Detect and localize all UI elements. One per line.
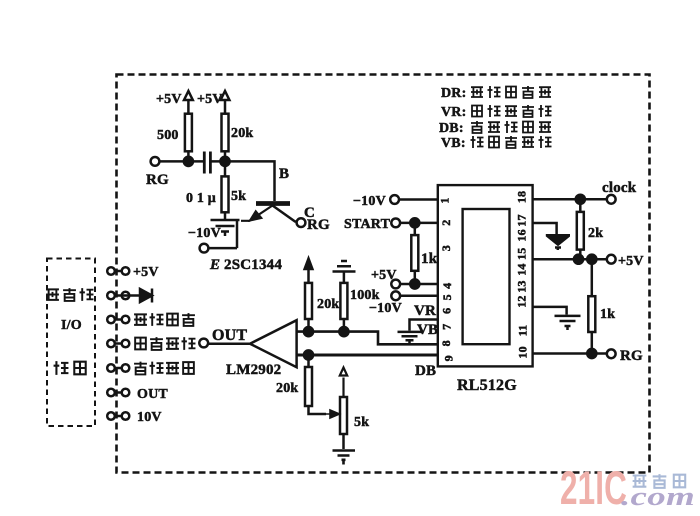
node RG right terminal xyxy=(607,349,616,358)
wire xyxy=(224,161,227,219)
wire xyxy=(115,294,140,297)
svg-text:5: 5 xyxy=(440,294,454,300)
svg-text:21IC: 21IC xyxy=(560,461,627,514)
computer I/O interface dashed box xyxy=(47,259,95,427)
svg-text:10V: 10V xyxy=(137,410,162,425)
power arrow above 20k R4 xyxy=(305,259,313,283)
wire xyxy=(343,319,346,332)
svg-text:2SC1344: 2SC1344 xyxy=(224,257,282,273)
node junction xyxy=(587,349,596,358)
wire op-amp input top xyxy=(297,332,438,345)
svg-text:2k: 2k xyxy=(588,226,603,241)
IC pin numbers left xyxy=(438,197,456,361)
wire pin15 to +5V xyxy=(533,258,607,261)
wire xyxy=(115,391,122,394)
svg-text:OUT: OUT xyxy=(137,387,168,402)
wire xyxy=(591,332,594,354)
wire xyxy=(210,161,274,201)
wire xyxy=(579,199,582,259)
svg-text:OUT: OUT xyxy=(212,327,247,344)
svg-text:10: 10 xyxy=(516,346,530,358)
label computer (ji suan ji) xyxy=(46,288,93,301)
svg-text:.com: .com xyxy=(621,482,695,511)
node junction xyxy=(304,327,313,336)
wire xyxy=(399,198,438,201)
wire xyxy=(224,151,227,161)
wire VB ground to pin7 xyxy=(410,320,438,331)
resistor 500 xyxy=(185,114,192,152)
svg-text:1k: 1k xyxy=(421,251,438,267)
transistor Q1 2SC1344 xyxy=(256,201,290,206)
svg-text:7: 7 xyxy=(440,324,454,330)
svg-text:−10V: −10V xyxy=(188,226,221,241)
svg-text:E: E xyxy=(209,257,220,273)
potentiometer 5k xyxy=(340,397,347,434)
node junction xyxy=(574,255,583,264)
watermark dianziwang xyxy=(633,474,686,488)
svg-text:DB: DB xyxy=(415,363,436,379)
node -10V terminal xyxy=(200,244,209,253)
resistor 1k left xyxy=(411,235,418,271)
svg-text:1k: 1k xyxy=(600,307,615,322)
wire xyxy=(208,342,250,345)
wiper arrow into pot xyxy=(326,410,340,418)
svg-text:−10V: −10V xyxy=(353,194,386,209)
IC pin numbers right xyxy=(515,191,530,359)
ground under 5k xyxy=(211,220,240,236)
wire xyxy=(115,415,122,418)
svg-text:+5V: +5V xyxy=(133,265,159,280)
IC inner rectangle xyxy=(463,209,510,344)
label clock signal row xyxy=(134,313,195,326)
wire xyxy=(400,222,438,225)
svg-text:14: 14 xyxy=(515,263,529,275)
svg-text:16: 16 xyxy=(515,229,529,241)
node +5V terminal xyxy=(391,280,400,289)
resistor 1k right xyxy=(588,296,595,332)
svg-text:18: 18 xyxy=(515,191,529,203)
node OUT terminal xyxy=(199,339,208,348)
wire pin12 to ground xyxy=(533,307,567,315)
svg-text:+5V: +5V xyxy=(156,92,182,107)
node junction xyxy=(587,255,596,264)
inverted ground above 100k xyxy=(333,261,356,283)
label recharge terminal row xyxy=(134,362,194,375)
capacitor 0.1u xyxy=(204,152,210,174)
wire xyxy=(414,271,417,284)
wire xyxy=(342,434,345,449)
svg-text:RG: RG xyxy=(307,217,330,233)
svg-text:11: 11 xyxy=(516,325,530,337)
diode D1 xyxy=(140,289,152,303)
svg-text:6: 6 xyxy=(440,308,454,314)
node junction xyxy=(410,279,419,288)
resistor 100k xyxy=(340,283,347,319)
wire op-amp input bottom xyxy=(297,354,438,357)
svg-text:+5V: +5V xyxy=(371,268,397,283)
node junction xyxy=(184,157,193,166)
svg-text:VR: VR xyxy=(414,303,436,319)
power +5V arrow 2 xyxy=(221,91,230,114)
svg-text:RG: RG xyxy=(146,172,169,188)
wire xyxy=(307,319,310,332)
node START terminal xyxy=(391,219,400,228)
wire pin18 to clock xyxy=(533,198,607,201)
signal ground triangle xyxy=(546,235,570,244)
svg-text:4: 4 xyxy=(440,283,454,289)
wire xyxy=(400,295,438,298)
node pair diode row xyxy=(107,292,115,300)
op-amp U1 LM2902 xyxy=(250,320,297,367)
wire xyxy=(187,151,190,161)
wire xyxy=(414,223,417,235)
svg-text:20k: 20k xyxy=(231,126,253,141)
svg-text:1: 1 xyxy=(438,197,452,203)
figure dashed border xyxy=(117,75,650,473)
wire pin17 to signal ground xyxy=(533,223,557,234)
node junction xyxy=(339,327,348,336)
wire xyxy=(115,342,122,345)
IC U2 RL512G outline xyxy=(438,185,533,366)
svg-text:13: 13 xyxy=(515,280,529,292)
svg-text:17: 17 xyxy=(515,214,529,226)
potentiometer 5k arrow xyxy=(340,368,347,398)
svg-text:9: 9 xyxy=(442,355,456,361)
node pair OUT xyxy=(107,389,115,397)
ground VB xyxy=(398,332,422,345)
wire xyxy=(115,270,122,273)
svg-text:8: 8 xyxy=(439,340,453,346)
svg-text:+5V: +5V xyxy=(197,92,223,107)
node junction xyxy=(576,195,585,204)
svg-text:12: 12 xyxy=(515,295,529,307)
resistor 20k top xyxy=(222,114,229,152)
node pair 10V xyxy=(107,412,115,420)
power +5V arrow 1 xyxy=(184,91,193,114)
label start signal row xyxy=(135,337,195,350)
label interface (jie kou) xyxy=(54,361,86,375)
node pair recharge terminal xyxy=(107,364,115,372)
node +5V right terminal xyxy=(607,255,616,264)
node pair clock signal xyxy=(107,316,115,324)
node pair +5V terminal xyxy=(107,267,115,275)
wire xyxy=(400,283,438,286)
svg-text:5k: 5k xyxy=(354,415,369,430)
wire xyxy=(159,160,203,163)
node pair start signal xyxy=(107,340,115,348)
svg-text:RL512G: RL512G xyxy=(457,377,517,394)
svg-text:15: 15 xyxy=(515,248,529,260)
svg-text:I/O: I/O xyxy=(61,318,82,333)
ground right xyxy=(555,316,581,330)
node -10V pin5 terminal xyxy=(391,291,400,300)
node junction xyxy=(220,157,229,166)
svg-text:20k: 20k xyxy=(317,297,339,312)
resistor 20k R5 xyxy=(305,367,312,406)
svg-text:VB:: VB: xyxy=(441,136,466,151)
svg-text:3: 3 xyxy=(439,245,453,251)
svg-text:START: START xyxy=(344,217,391,232)
svg-text:DB:: DB: xyxy=(439,121,464,136)
svg-text:0 1 μ: 0 1 μ xyxy=(186,191,216,206)
svg-text:RG: RG xyxy=(620,348,643,364)
resistor 2k xyxy=(577,212,584,250)
svg-text:clock: clock xyxy=(602,180,637,196)
svg-text:−10V: −10V xyxy=(369,301,402,316)
node RG collector terminal xyxy=(297,218,306,227)
svg-text:VB: VB xyxy=(417,322,438,338)
wire xyxy=(115,318,122,321)
svg-text:20k: 20k xyxy=(276,381,298,396)
wire xyxy=(309,355,327,414)
resistor 5k xyxy=(222,176,229,212)
node RG input terminal xyxy=(151,157,160,166)
label RG input xyxy=(146,172,169,188)
svg-text:B: B xyxy=(279,166,289,182)
svg-text:2: 2 xyxy=(439,219,453,225)
svg-text:VR:: VR: xyxy=(441,105,466,120)
svg-text:DR:: DR: xyxy=(441,86,466,101)
wire xyxy=(591,259,594,296)
svg-text:LM2902: LM2902 xyxy=(226,362,281,378)
wire pin10 to RG xyxy=(533,352,607,355)
node -10V pin1 terminal xyxy=(390,195,399,204)
svg-text:5k: 5k xyxy=(231,189,246,204)
svg-text:+5V: +5V xyxy=(618,254,644,269)
ground under potentiometer xyxy=(333,451,356,465)
wire xyxy=(115,367,122,370)
node junction xyxy=(304,350,313,359)
node clock terminal xyxy=(607,195,616,204)
node junction xyxy=(410,218,419,227)
wire -10V to emitter xyxy=(208,221,237,248)
resistor 20k R4 xyxy=(305,283,312,319)
svg-text:500: 500 xyxy=(157,128,179,143)
